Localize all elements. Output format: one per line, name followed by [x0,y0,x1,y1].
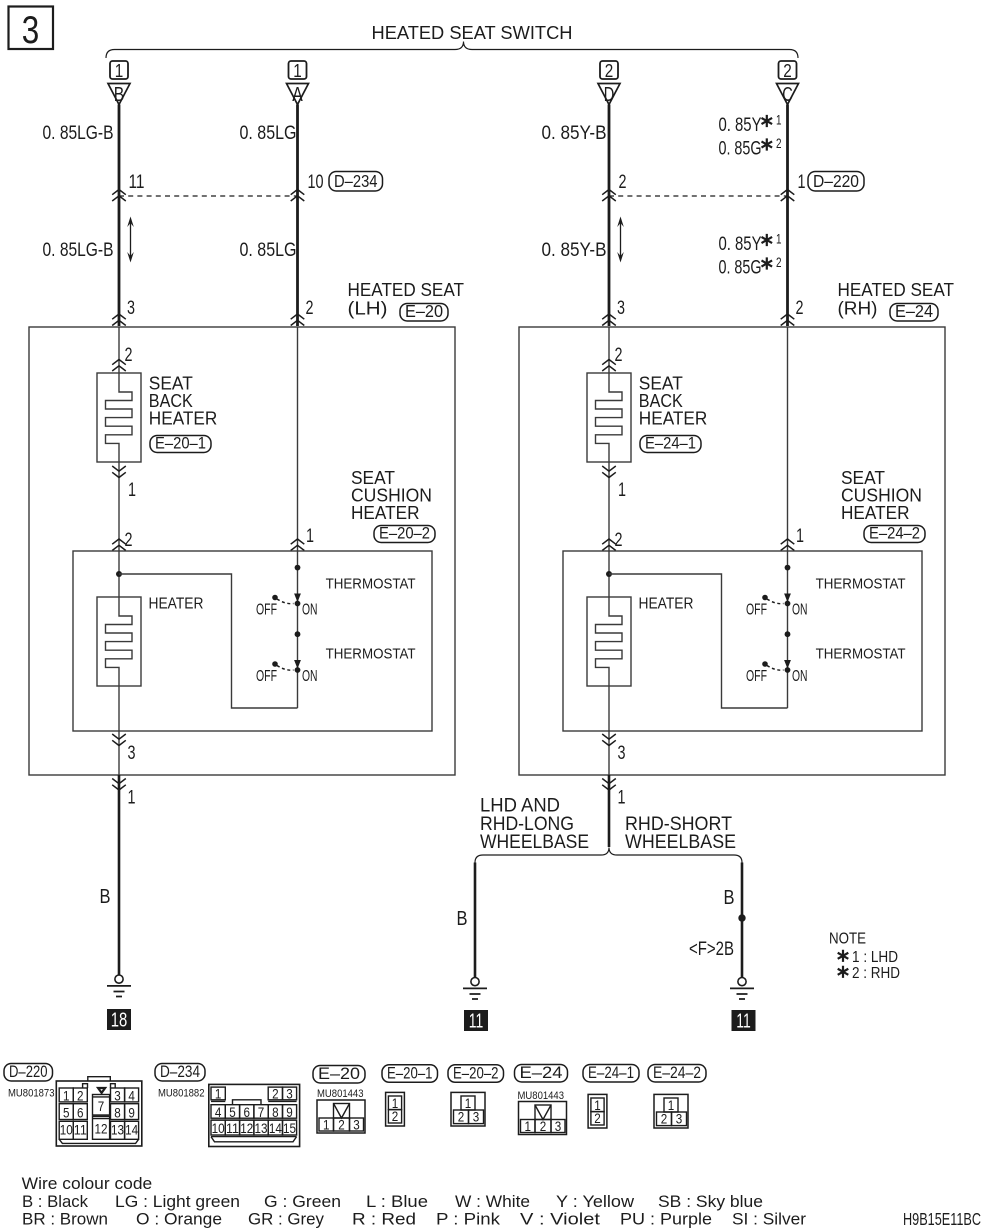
connector label E-20-2 [374,526,435,543]
wire from switch pin C down to heated seat unit [786,105,789,327]
label LHD AND RHD-LONG WHEELBASE [480,796,589,854]
svg-text:8: 8 [272,1104,279,1120]
svg-text:3: 3 [114,1088,121,1104]
svg-text:D: D [604,84,615,106]
connector label E-20-2 (pinout) [448,1065,504,1083]
svg-text:2: 2 [661,1111,668,1127]
svg-text:E–24–2: E–24–2 [869,524,920,543]
svg-text:Wire colour code: Wire colour code [22,1174,153,1193]
wire: junction to thermostat chain (elbow) [119,574,298,708]
svg-text:1: 1 [306,526,314,547]
svg-text:Y : Yellow: Y : Yellow [556,1192,635,1211]
heated seat (RH) header label [838,280,955,319]
svg-text:SB : Sky blue: SB : Sky blue [658,1192,763,1211]
ground ref 11 (left branch) [464,1010,488,1033]
svg-text:L : Blue: L : Blue [366,1192,428,1211]
svg-text:11: 11 [226,1120,239,1136]
seat back heater element (E-20-1) [97,373,141,463]
seat cushion heater E-20-2 inner box [73,551,432,731]
svg-text:ON: ON [792,668,808,685]
svg-text:6: 6 [244,1104,251,1120]
svg-text:13: 13 [111,1122,124,1138]
svg-text:2: 2 [776,255,782,270]
label RHD-SHORT WHEELBASE [625,814,736,853]
svg-text:2: 2 [796,298,804,319]
connector label E-24-2 [864,526,925,543]
svg-text:E–20–1: E–20–1 [155,434,206,453]
thermostat 1 switch [256,594,318,619]
svg-text:3: 3 [22,9,40,52]
svg-text:1: 1 [128,480,136,501]
svg-text:1: 1 [63,1088,70,1104]
svg-text:O : Orange: O : Orange [136,1210,222,1229]
connector pin 1-B (heated seat switch LH) [108,61,130,106]
connector chevrons seat back heater pin 2 [112,360,126,372]
connector label D-234 (pinout) [155,1064,205,1082]
svg-text:5: 5 [229,1104,236,1120]
svg-text:3: 3 [618,743,626,764]
svg-text:E–24–2: E–24–2 [653,1063,701,1082]
wire: cushion pin 2 to junction [118,551,120,597]
svg-text:0. 85G: 0. 85G [719,139,762,160]
connector label D-220 (pinout) [4,1064,53,1082]
svg-text:0. 85Y: 0. 85Y [719,234,762,255]
connector label E-24 (pinout) [515,1065,568,1083]
svg-text:E–20–1: E–20–1 [387,1063,433,1082]
wire label 0.85G*2 lower (C) [719,255,782,279]
heated seat unit E-20 outline box [29,327,455,775]
svg-text:THERMOSTAT: THERMOSTAT [326,577,416,593]
svg-text:(RH): (RH) [838,299,878,319]
thermostat chain top contact node [785,565,791,571]
seat back heater element (E-24-1) [587,373,631,463]
connector label D-234 [329,172,383,192]
in-line connector chevrons wire C at D-220 [781,190,795,202]
connector chevrons E-20 pin 1 out [112,779,126,791]
svg-text:14: 14 [125,1122,138,1138]
svg-text:E–20: E–20 [318,1064,360,1083]
svg-text:B: B [724,886,735,909]
svg-text:9: 9 [128,1104,135,1120]
svg-text:1: 1 [618,788,626,809]
svg-text:1: 1 [618,480,626,501]
svg-text:E–24–1: E–24–1 [588,1063,634,1082]
svg-text:0. 85LG-B: 0. 85LG-B [43,240,114,261]
svg-text:D–234: D–234 [334,171,378,191]
svg-text:THERMOSTAT: THERMOSTAT [816,577,906,593]
svg-text:HEATER: HEATER [351,503,420,523]
svg-text:HEATER: HEATER [149,409,218,429]
dashed connector line D-234 [119,195,298,197]
svg-text:GR : Grey: GR : Grey [248,1210,324,1229]
svg-text:0. 85LG: 0. 85LG [240,123,297,144]
svg-text:HEATED SEAT SWITCH: HEATED SEAT SWITCH [372,22,573,43]
thermostat 2 switch [746,660,808,685]
svg-text:4: 4 [215,1104,222,1120]
svg-text:ON: ON [792,602,808,619]
wire: pin 3 to seat back heater [608,327,610,373]
connector label E-24-1 (pinout) [583,1065,639,1083]
connector chevrons cushion heater pin 2 [112,539,126,551]
svg-text:6: 6 [77,1104,84,1120]
seat cushion heater label [841,468,922,523]
dashed connector line D-220 [609,195,788,197]
svg-text:B: B [457,907,468,930]
seat cushion heater label [351,468,432,523]
svg-text:OFF: OFF [746,602,767,619]
connector chevrons cushion heater pin 3 [112,734,126,746]
seat back heater label [639,374,708,429]
svg-text:3: 3 [555,1118,562,1134]
thermostat middle contact node [785,631,791,637]
wire: E-24 pin 1 down to wheelbase split [608,775,611,847]
svg-text:4: 4 [128,1088,135,1104]
svg-text:10: 10 [60,1122,73,1138]
ground wire B (LHD and RHD-long) [474,863,477,978]
svg-text:PU : Purple: PU : Purple [620,1210,712,1229]
svg-text:0. 85G: 0. 85G [719,258,762,279]
svg-text:14: 14 [269,1120,282,1136]
note block [829,931,900,983]
svg-text:A: A [292,84,303,106]
connector pin 2-D (heated seat switch RH) [598,61,620,106]
wire label 0.85Y*1 lower (C) [719,232,782,256]
svg-text:7: 7 [98,1098,105,1114]
connector pinout E-24-1 [588,1094,607,1128]
junction node [116,571,122,577]
connector label E-20 [400,304,448,322]
svg-text:1: 1 [525,1118,532,1134]
wire: seat back heater to seat cushion heater [118,462,120,551]
svg-text:10: 10 [308,172,324,193]
svg-text:2: 2 [605,61,614,81]
svg-text:2: 2 [615,345,623,366]
wire: heater to pin 3 and pin 1 [608,686,610,775]
svg-text:8: 8 [114,1104,121,1120]
connector chevrons cushion heater pin 3 [602,734,616,746]
connector chevrons seat back heater pin 1 [112,466,126,478]
svg-text:0. 85Y-B: 0. 85Y-B [542,123,607,144]
svg-text:0. 85LG-B: 0. 85LG-B [43,123,114,144]
svg-text:W : White: W : White [455,1192,530,1211]
svg-text:HEATER: HEATER [149,596,204,613]
svg-text:2: 2 [776,136,782,151]
svg-text:1 : LHD: 1 : LHD [852,949,898,966]
svg-text:HEATED SEAT: HEATED SEAT [348,280,465,300]
junction node [606,571,612,577]
connector pinout E-20-2 [451,1092,485,1126]
svg-text:15: 15 [283,1120,296,1136]
connector chevrons into E-24 pin 2 [781,314,795,326]
svg-text:1: 1 [323,1116,330,1132]
ground ref 11 (right branch) [732,1010,756,1033]
wire colour code line 1 [22,1192,763,1211]
svg-text:G : Green: G : Green [264,1192,341,1211]
brace over switch wires [106,42,798,59]
wire label 0.85G*2 (C) [719,136,782,160]
svg-text:2 : RHD: 2 : RHD [852,965,900,982]
svg-text:MU801873: MU801873 [8,1088,55,1100]
connector label E-24-2 (pinout) [648,1065,706,1083]
svg-text:3: 3 [617,298,625,319]
svg-text:0. 85LG: 0. 85LG [240,240,297,261]
svg-text:NOTE: NOTE [829,931,866,948]
svg-text:BR : Brown: BR : Brown [22,1210,108,1229]
connector chevrons into E-20 pin 2 [291,314,305,326]
thermostat 2 switch [256,660,318,685]
connector chevrons into E-24 pin 3 [602,314,616,326]
wire label 0.85Y*1 (C) [719,113,782,137]
page number box 3 [9,7,54,53]
wire: seat back heater to seat cushion heater [608,462,610,551]
wire: cushion pin 2 to junction [608,551,610,597]
svg-text:1: 1 [115,61,124,81]
svg-text:1: 1 [128,788,136,809]
svg-text:2: 2 [392,1108,399,1124]
in-line connector chevrons wire B at D-234 [112,190,126,202]
svg-text:B: B [100,885,111,908]
svg-text:HEATER: HEATER [841,503,910,523]
connector pinout E-20-1 [386,1092,405,1126]
connector pinout D-234 [209,1084,300,1146]
svg-text:2: 2 [125,345,133,366]
svg-text:12: 12 [95,1120,108,1136]
svg-text:1: 1 [668,1097,675,1113]
wire: pin 3 to seat back heater [118,327,120,373]
svg-text:2: 2 [272,1086,279,1102]
svg-text:3: 3 [473,1109,480,1125]
in-line connector chevrons wire D at D-220 [602,190,616,202]
wire from switch pin B down to heated seat unit [118,105,121,327]
svg-text:R : Red: R : Red [352,1210,416,1229]
connector label E-24 [890,304,938,322]
svg-text:3: 3 [286,1086,293,1102]
svg-text:2: 2 [338,1116,345,1132]
svg-text:H9B15E11BC: H9B15E11BC [903,1209,981,1229]
connector pin 1-A (heated seat switch LH) [287,61,309,106]
svg-text:1: 1 [776,232,782,247]
svg-text:2: 2 [77,1088,84,1104]
ground symbol (left branch) [463,978,487,1000]
svg-text:P : Pink: P : Pink [436,1210,501,1229]
ground symbol (right branch) [730,978,754,1000]
svg-text:C: C [782,84,793,106]
svg-text:11: 11 [129,172,145,193]
svg-text:D–234: D–234 [160,1062,200,1081]
svg-text:E–24–1: E–24–1 [645,434,696,453]
svg-text:THERMOSTAT: THERMOSTAT [816,647,906,663]
svg-text:SI : Silver: SI : Silver [732,1210,806,1229]
connector pinout E-20 [317,1100,365,1133]
connector pinout E-24-2 [654,1094,688,1128]
svg-text:OFF: OFF [256,602,277,619]
cushion heater element [587,597,631,687]
svg-text:1: 1 [293,61,302,81]
svg-text:12: 12 [240,1120,253,1136]
svg-text:E–20–2: E–20–2 [379,524,430,543]
connector label D-220 [808,172,864,192]
svg-text:B: B [114,84,125,106]
svg-text:MU801443: MU801443 [518,1090,565,1102]
wire from switch pin A down to heated seat unit [296,105,299,327]
connector label E-20-1 [150,436,211,453]
wire: heater to pin 3 and pin 1 [118,686,120,775]
ground wire B (RHD-short) [741,863,744,978]
thermostat chain top contact node [295,565,301,571]
svg-text:ON: ON [302,602,318,619]
svg-text:3: 3 [127,298,135,319]
svg-text:9: 9 [286,1104,293,1120]
svg-text:1: 1 [798,172,806,193]
wire: junction to thermostat chain (elbow) [609,574,788,708]
thermostat middle contact node [295,631,301,637]
splice junction on RHD-short wire [738,914,745,921]
svg-text:B : Black: B : Black [22,1192,88,1211]
svg-text:2: 2 [619,172,627,193]
in-line connector chevrons wire A at D-234 [291,190,305,202]
svg-text:E–24: E–24 [895,301,933,321]
svg-text:WHEELBASE: WHEELBASE [625,832,736,853]
svg-text:OFF: OFF [746,668,767,685]
wheelbase split brace [475,848,742,863]
svg-text:7: 7 [258,1104,265,1120]
svg-text:3: 3 [353,1116,360,1132]
ground symbol (LH) [107,975,131,997]
svg-text:MU801443: MU801443 [317,1088,364,1100]
svg-text:1: 1 [776,113,782,128]
seat back heater label [149,374,218,429]
svg-text:5: 5 [63,1104,70,1120]
svg-text:D–220: D–220 [813,171,859,191]
svg-text:2: 2 [594,1110,601,1126]
connector label E-24-1 [640,436,701,453]
wire: pin 2 down to thermostats [787,327,789,551]
svg-text:11: 11 [736,1011,751,1033]
svg-text:1: 1 [215,1086,222,1102]
heated seat unit E-24 outline box [519,327,945,775]
svg-text:10: 10 [212,1120,225,1136]
svg-text:ON: ON [302,668,318,685]
svg-text:2: 2 [306,298,314,319]
ground ref 18 [107,1009,131,1032]
wire from switch pin D down to heated seat unit [608,105,611,327]
connector pin 2-C (heated seat switch RH) [777,61,799,106]
connector chevrons cushion heater pin 2 [602,539,616,551]
wire: thermostat chain [787,551,789,708]
connector chevrons seat back heater pin 1 [602,466,616,478]
svg-text:2: 2 [458,1109,465,1125]
connector pinout D-220 [56,1077,142,1146]
connector chevrons seat back heater pin 2 [602,360,616,372]
svg-text:11: 11 [469,1011,484,1033]
svg-text:WHEELBASE: WHEELBASE [480,832,589,853]
svg-text:E–20: E–20 [405,301,443,321]
thermostat 1 switch [746,594,808,619]
svg-text:13: 13 [255,1120,268,1136]
ground wire B (LH) [118,775,121,975]
svg-text:LG : Light green: LG : Light green [115,1192,240,1211]
svg-text:11: 11 [74,1122,87,1138]
connector chevrons cushion heater pin 1 [781,539,795,551]
svg-text:0. 85Y-B: 0. 85Y-B [542,240,607,261]
svg-text:1: 1 [796,526,804,547]
svg-text:3: 3 [676,1111,683,1127]
svg-text:2: 2 [125,530,133,551]
seat cushion heater E-24-2 inner box [563,551,922,731]
svg-text:0. 85Y: 0. 85Y [719,115,762,136]
svg-text:<F>2B: <F>2B [689,939,734,960]
svg-text:2: 2 [615,530,623,551]
svg-text:HEATER: HEATER [639,409,708,429]
connector pinout E-24 [519,1102,567,1135]
svg-text:3: 3 [128,743,136,764]
svg-text:(LH): (LH) [348,299,388,319]
svg-text:HEATER: HEATER [639,596,694,613]
svg-text:2: 2 [783,61,792,81]
svg-text:MU801882: MU801882 [158,1088,205,1100]
svg-text:D–220: D–220 [9,1062,48,1081]
svg-text:THERMOSTAT: THERMOSTAT [326,647,416,663]
connector chevrons cushion heater pin 1 [291,539,305,551]
double-headed arrow (wire continuation) [127,217,134,263]
svg-text:HEATED SEAT: HEATED SEAT [838,280,955,300]
svg-text:1: 1 [465,1095,472,1111]
connector chevrons into E-20 pin 3 [112,314,126,326]
connector chevrons E-24 pin 1 out [602,779,616,791]
svg-text:18: 18 [111,1010,128,1032]
wire colour code line 2 [22,1210,806,1229]
svg-text:2: 2 [540,1118,547,1134]
connector label E-20 (pinout) [313,1066,365,1084]
connector label E-20-1 (pinout) [382,1065,438,1083]
svg-text:E–20–2: E–20–2 [453,1063,499,1082]
svg-text:V : Violet: V : Violet [520,1210,600,1229]
cushion heater element [97,597,141,687]
heated seat (LH) header label [348,280,465,319]
svg-text:OFF: OFF [256,668,277,685]
double-headed arrow (wire continuation) [617,217,624,263]
wire: thermostat chain [297,551,299,708]
svg-text:E–24: E–24 [520,1063,563,1082]
wire: pin 2 down to thermostats [297,327,299,551]
